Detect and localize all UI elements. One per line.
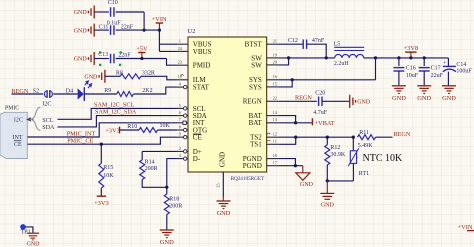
node TS junction: [294, 136, 297, 139]
svg-text:RT1: RT1: [359, 171, 369, 177]
svg-text:C11: C11: [99, 24, 109, 30]
svg-text:5.49K: 5.49K: [358, 143, 374, 149]
svg-text:22uF: 22uF: [431, 73, 444, 79]
resistor R10: [127, 123, 170, 133]
svg-text:332R: 332R: [142, 71, 155, 77]
wire: [100, 144, 102, 163]
wire to VBUS pins: [158, 30, 160, 51]
capacitor C11: [99, 24, 134, 35]
svg-text:VBUS: VBUS: [193, 48, 212, 56]
svg-text:12: 12: [273, 132, 277, 137]
ground C17: [417, 86, 431, 102]
capacitor C12: [288, 38, 325, 49]
pin 3 D- (left): [177, 153, 201, 163]
node R12 junction: [326, 136, 329, 139]
wire: [53, 93, 77, 95]
node SW junction: [287, 56, 290, 59]
svg-text:R10: R10: [127, 124, 137, 130]
wire SDA: [58, 116, 177, 127]
svg-text:21: 21: [273, 39, 277, 44]
pin 2 D+ (left): [177, 146, 202, 156]
svg-text:GND: GND: [74, 10, 88, 16]
svg-text:I2C: I2C: [42, 102, 51, 108]
svg-text:GND: GND: [321, 203, 335, 209]
svg-text:REGN: REGN: [394, 131, 411, 138]
wire: [100, 188, 102, 196]
resistor R12: [325, 137, 346, 165]
pin 9 CE (left): [177, 132, 202, 142]
svg-text:PMID: PMID: [193, 62, 211, 70]
wire TS2: [278, 136, 353, 138]
svg-text:PGND: PGND: [243, 162, 262, 170]
svg-text:GND: GND: [392, 95, 406, 102]
svg-text:+: +: [443, 60, 447, 67]
pin 7 INT (left): [177, 117, 206, 127]
svg-text:10K: 10K: [103, 173, 114, 179]
svg-text:NTC 10K: NTC 10K: [363, 153, 404, 164]
svg-text:GND: GND: [417, 95, 431, 102]
ground R8: [84, 70, 105, 83]
wire PGND18: [278, 159, 295, 166]
wire: [322, 100, 350, 102]
svg-text:D4: D4: [66, 89, 73, 95]
wire: [116, 29, 160, 31]
power +3V8: [404, 45, 419, 58]
svg-text:30.9K: 30.9K: [330, 152, 346, 158]
svg-text:R12: R12: [330, 145, 340, 151]
svg-text:R14: R14: [145, 160, 155, 166]
power +5V: [136, 45, 148, 58]
svg-text:SAM_I2C_SDA: SAM_I2C_SDA: [95, 109, 137, 116]
svg-text:1: 1: [179, 39, 181, 44]
ground C13: [74, 52, 95, 65]
harness entry I2C: [14, 118, 34, 124]
svg-text:BAT: BAT: [249, 119, 263, 127]
svg-text:C10: C10: [108, 0, 118, 6]
node CE/R15 junction: [100, 143, 103, 146]
power +3V3 (down): [94, 196, 109, 207]
wire SYS rail: [364, 57, 449, 59]
wire pin25: [222, 172, 224, 197]
svg-text:PMIC_INT: PMIC_INT: [67, 130, 96, 137]
ground C16: [392, 86, 406, 102]
wire: [142, 180, 167, 188]
svg-text:t: t: [357, 155, 358, 159]
pin 20 SW (right): [251, 59, 278, 69]
svg-text:BTST: BTST: [245, 41, 263, 49]
thermistor RT1: [348, 137, 369, 177]
node R12/RT1 bottom junction: [326, 179, 329, 182]
svg-text:SAM_I2C_SCL: SAM_I2C_SCL: [94, 102, 134, 109]
svg-text:STAT: STAT: [193, 84, 210, 92]
svg-text:+VBAT: +VBAT: [314, 120, 334, 127]
power +3V3 (left): [105, 127, 120, 135]
wire to ILM: [141, 76, 177, 80]
resistor R8: [116, 71, 155, 79]
svg-text:TS1: TS1: [250, 141, 262, 149]
svg-text:GND: GND: [300, 182, 314, 188]
svg-text:GND: GND: [27, 242, 41, 247]
svg-text:GND: GND: [217, 210, 231, 217]
ground C10: [74, 6, 95, 19]
svg-text:U2: U2: [188, 28, 196, 35]
pin 16 SYS (right): [249, 74, 278, 84]
svg-text:L5: L5: [334, 42, 341, 48]
pin 14 BAT (right): [249, 110, 279, 120]
power +VIN: [152, 16, 167, 30]
wire D-: [167, 159, 177, 194]
pin 8 OTG (left): [177, 124, 208, 134]
wire: [12, 93, 44, 95]
pin 21 BTST (right): [245, 39, 279, 49]
wire PGND17: [278, 165, 303, 167]
svg-text:I2C: I2C: [14, 118, 23, 124]
svg-text:INT: INT: [13, 135, 23, 141]
svg-text:C17: C17: [431, 66, 441, 72]
wire SYS15 jog: [278, 80, 292, 87]
svg-text:R18: R18: [169, 197, 179, 203]
ground earth R12: [320, 181, 334, 209]
wire TS1 jog: [278, 137, 296, 144]
node R14/R18 junction: [165, 186, 168, 189]
svg-text:200R: 200R: [145, 166, 158, 172]
svg-text:REGN: REGN: [243, 98, 262, 106]
svg-text:SW: SW: [251, 61, 262, 69]
inductor L5: [334, 42, 365, 67]
wire BAT13: [278, 122, 312, 124]
svg-text:C16: C16: [406, 66, 416, 72]
wire to STAT: [133, 87, 176, 94]
svg-text:PMIC_CE: PMIC_CE: [67, 137, 93, 144]
svg-text:GND: GND: [357, 100, 371, 106]
wire to OTG: [158, 129, 177, 131]
wire SW20 jog: [278, 58, 288, 65]
wire: [376, 136, 393, 138]
resistor R18: [164, 194, 182, 215]
pin 15 SYS (right): [249, 81, 278, 91]
pin 12 TS2 (right): [250, 132, 278, 142]
node +5V junction: [140, 57, 143, 60]
wire D+: [142, 150, 176, 152]
svg-text:REGN: REGN: [295, 95, 312, 102]
wire: [166, 215, 168, 231]
svg-text:+3V3: +3V3: [105, 127, 120, 134]
wire: [326, 165, 328, 181]
ground C11: [74, 24, 95, 37]
node PGND junction: [294, 164, 297, 167]
power +VBAT: [312, 118, 334, 127]
pin 17 PGND (right): [243, 160, 278, 170]
pin 13 BAT (right): [249, 117, 279, 127]
svg-text:+3V8: +3V8: [404, 45, 419, 52]
node C16 junction: [397, 56, 400, 59]
ground C14: [442, 86, 456, 102]
wire REGN: [278, 100, 317, 102]
pin 11 TS1 (right): [250, 139, 278, 149]
node +3V8 junction: [409, 56, 412, 59]
power +VIN (corner): [458, 224, 474, 231]
svg-text:C12: C12: [288, 38, 298, 44]
svg-text:11: 11: [273, 139, 277, 144]
node L5/SYS junction: [374, 56, 377, 59]
svg-text:2.2uH: 2.2uH: [334, 61, 350, 67]
svg-text:SYS: SYS: [249, 83, 262, 91]
svg-text:GND: GND: [74, 57, 88, 63]
ground TP1: [27, 233, 41, 247]
pin 6 SDA (left): [177, 110, 207, 120]
pin 22 REGN (right): [243, 96, 278, 106]
svg-text:100uF: 100uF: [456, 69, 472, 75]
svg-text:+3V3: +3V3: [94, 200, 109, 207]
svg-text:GND: GND: [442, 95, 456, 102]
pin 23 PMID (left): [177, 60, 211, 70]
svg-text:R9: R9: [104, 88, 111, 94]
pin 18 PGND (right): [243, 153, 278, 163]
resistor R9: [104, 88, 152, 96]
svg-text:SCL: SCL: [42, 118, 53, 124]
wire: [94, 11, 109, 13]
wire: [116, 58, 167, 60]
pin 5 SCL (left): [177, 103, 206, 113]
harness connector PMIC: [0, 106, 27, 159]
svg-text:2K2: 2K2: [142, 88, 152, 94]
pin 1 VBUS (left): [177, 39, 212, 49]
svg-text:10uF: 10uF: [406, 73, 419, 79]
resistor R14: [140, 151, 158, 179]
wire BTST: [278, 43, 303, 45]
node C17 junction: [423, 56, 426, 59]
svg-text:+5V: +5V: [136, 45, 148, 52]
svg-text:47nF: 47nF: [312, 38, 325, 44]
svg-text:GND: GND: [74, 28, 88, 34]
node BAT junction: [294, 121, 297, 124]
wire SYS riser: [375, 58, 377, 80]
harness fanout brace I2C: [31, 102, 51, 131]
wire to PMID: [167, 59, 177, 66]
capacitor C14 (electrolytic): [443, 58, 473, 86]
pin 4 STAT (left): [177, 82, 210, 92]
capacitor C13 (selected): [98, 51, 131, 66]
svg-text:S2: S2: [33, 89, 39, 95]
svg-text:C14: C14: [456, 62, 466, 68]
svg-text:GND: GND: [219, 152, 227, 167]
wire INT: [28, 123, 177, 137]
capacitor C20: [313, 91, 328, 116]
wire BAT14: [278, 116, 295, 123]
svg-text:4.7uF: 4.7uF: [313, 110, 328, 116]
svg-text:SDA: SDA: [42, 125, 55, 131]
node C12 junction: [325, 56, 328, 59]
ground PGND (triangle): [296, 166, 314, 189]
wire SW rail: [278, 57, 335, 59]
signal CE (active low): [14, 141, 22, 148]
ground R18: [160, 230, 174, 246]
pin 24 VBUS (left): [177, 46, 212, 56]
capacitor C16: [393, 58, 418, 86]
svg-text:10K: 10K: [160, 123, 171, 129]
svg-text:PMIC: PMIC: [5, 106, 19, 112]
ground C20: [350, 95, 371, 108]
capacitor C17: [419, 58, 444, 86]
svg-text:D-: D-: [193, 155, 201, 163]
wire: [26, 227, 33, 233]
pin 10 ILM (left): [177, 74, 207, 84]
switch S2: [33, 89, 53, 98]
capacitor C10: [107, 0, 122, 26]
node C10/C11 junction: [142, 28, 145, 31]
svg-text:CE: CE: [14, 142, 22, 148]
resistor R11: [358, 130, 376, 149]
svg-text:2: 2: [179, 146, 181, 151]
wire CE: [28, 137, 177, 144]
svg-text:200R: 200R: [169, 204, 182, 210]
wire SYS16: [278, 79, 375, 81]
node +VIN junction: [158, 28, 161, 31]
svg-text:22: 22: [273, 96, 277, 101]
svg-text:+VIN: +VIN: [152, 16, 167, 23]
wire: [94, 58, 109, 60]
svg-text:GND: GND: [84, 75, 98, 81]
wire: [94, 29, 109, 31]
node RT1 junction: [352, 136, 355, 139]
svg-text:CE: CE: [193, 134, 202, 142]
test point TP1: [20, 224, 30, 236]
pin 19 SW (right): [251, 52, 278, 62]
op-amp U1 / charger IC U2 body: [188, 37, 267, 172]
wire SCL: [58, 108, 177, 119]
pin 25 GND (bottom): [216, 152, 227, 188]
LED D4: [66, 81, 92, 101]
resistor R15: [99, 163, 114, 188]
wire: [307, 44, 327, 58]
svg-text:R8: R8: [116, 71, 123, 77]
svg-text:R11: R11: [359, 130, 369, 136]
ground pin25: [217, 201, 231, 217]
wire: [84, 93, 116, 95]
wire: [116, 11, 145, 13]
svg-text:GND: GND: [160, 239, 174, 246]
svg-text:C20: C20: [315, 91, 325, 97]
wire: [327, 180, 353, 182]
svg-text:BQ24195RGET: BQ24195RGET: [231, 176, 266, 182]
svg-text:R15: R15: [103, 165, 113, 171]
node SYS junction: [291, 78, 294, 81]
wire: [105, 75, 120, 77]
wire: [120, 129, 140, 131]
